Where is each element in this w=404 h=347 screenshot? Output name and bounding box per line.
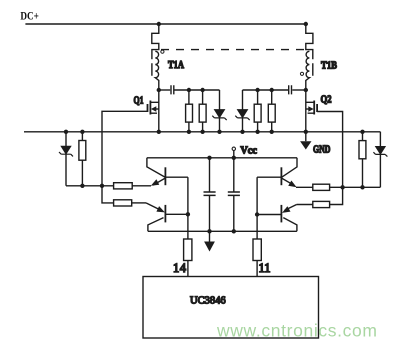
node rail left resistor [80, 130, 84, 134]
wire left bases vertical [187, 177, 189, 239]
transformer T1B secondary-half winding [306, 51, 310, 90]
wire cap to Q2 drain node [292, 89, 306, 91]
resistor R snubber 1 [188, 90, 190, 132]
wire mid bottom rail [148, 230, 297, 232]
node rail snubber D2 [240, 130, 244, 134]
resistor R pin11 [253, 239, 261, 261]
wire Q2 gate lead [317, 112, 343, 205]
zener diode D3 (left rail clamp) [65, 132, 67, 186]
wire snubber row left [175, 89, 220, 91]
capacitor C2 (right snubber) [289, 85, 292, 94]
winding phase dot T1B [300, 72, 303, 75]
node left wire gate join [100, 184, 104, 188]
node left wire resistor join [80, 184, 84, 188]
svg-text:GND: GND [313, 145, 331, 156]
capacitor C1 (left snubber) [171, 85, 174, 94]
svg-text:www.cntronics.com: www.cntronics.com [216, 321, 377, 341]
transformer T1A primary winding [155, 51, 159, 90]
node rail snubber R1 [187, 130, 191, 134]
svg-text:UC3846: UC3846 [190, 296, 226, 307]
resistor R gate-pulldown left [81, 132, 83, 186]
node right wire resistor join [360, 185, 364, 189]
wire right bases vertical [256, 177, 258, 239]
transistor V2 lower-left PNP [146, 203, 160, 210]
resistor R gate drive lower-right [313, 201, 330, 207]
svg-text:DC+: DC+ [20, 11, 39, 23]
resistor R snubber 3 [257, 90, 259, 132]
node lower-left base junction [186, 212, 190, 216]
zener diode D4 (right rail clamp) [379, 132, 381, 188]
node lower-right base junction [255, 212, 259, 216]
node rail snubber R3 [255, 130, 259, 134]
wire pin 11 [256, 261, 258, 277]
node cap1 rail join [207, 156, 211, 160]
op-amp U1 UC3846 box [143, 277, 319, 339]
node R-snubber tap 2 [200, 88, 204, 92]
node Q2 drain junction [304, 88, 308, 92]
wire left gate network [66, 185, 114, 187]
wire upper-right base [257, 176, 281, 178]
resistor R snubber 4 [271, 90, 273, 132]
resistor R snubber 2 [202, 90, 204, 132]
resistor R gate drive upper-right [313, 184, 330, 190]
svg-text:Q1: Q1 [134, 96, 144, 107]
wire vcc drop [233, 151, 235, 158]
node rail Q2 source / GND [304, 130, 308, 134]
mosfet Q2 [305, 90, 307, 132]
mosfet Q1 [158, 90, 160, 132]
wire Q1 drain to snubber cap [159, 89, 170, 91]
ground symbol mid [209, 231, 211, 241]
wire upper-right emitter [296, 186, 313, 188]
node right wire gate join [340, 185, 344, 189]
wire main ground rail [24, 131, 380, 133]
wire Q1 gate lead [102, 111, 148, 203]
resistor R gate drive lower-left [114, 200, 132, 206]
zener diode D1 (left snubber) [219, 90, 221, 132]
svg-text:T1B: T1B [321, 61, 337, 72]
node rail right resistor [360, 130, 364, 134]
svg-text:14: 14 [173, 261, 187, 275]
wire lower-right base [257, 214, 281, 216]
wire upper-left emitter [132, 185, 151, 187]
node R-snubber tap 4 [270, 88, 274, 92]
resistor R pin14 [184, 239, 192, 261]
wire mid vcc rail [147, 157, 297, 159]
wire pin 14 [187, 261, 189, 277]
node vcc rail join [232, 156, 236, 160]
winding phase dot T1A [161, 50, 164, 53]
resistor R right rail [362, 132, 364, 188]
svg-text:T1A: T1A [168, 60, 184, 71]
node rail snubber D1 [217, 130, 221, 134]
node rail snubber R4 [270, 130, 274, 134]
wire right gate network [330, 186, 381, 188]
node rail snubber R2 [200, 130, 204, 134]
wire upper-left base [165, 176, 188, 178]
wire snubber row right [243, 89, 289, 91]
svg-text:Q2: Q2 [321, 95, 332, 106]
capacitor C3 (vcc bypass left) [209, 158, 211, 232]
transistor V3 upper-right NPN [281, 158, 297, 178]
node T1A top junction [157, 22, 161, 26]
ground symbol at Q2 source [305, 132, 307, 141]
node R-snubber tap 1 [187, 88, 191, 92]
wire lower-right emitter lead [297, 204, 313, 206]
zener diode D2 (right snubber) [242, 90, 244, 132]
wire T1B top jog [306, 24, 313, 76]
wire lower-left emitter lead [132, 202, 146, 204]
resistor R gate drive upper-left [114, 183, 133, 189]
svg-text:11: 11 [259, 261, 271, 275]
capacitor C4 (vcc bypass right) [233, 158, 235, 232]
svg-text:Vcc: Vcc [240, 146, 257, 157]
vcc terminal circle [232, 147, 235, 150]
wire lower-left base [165, 213, 188, 215]
node mid rail cap1 [207, 229, 211, 233]
node T1B top junction [304, 22, 308, 26]
coupling dashed line between T1A and T1B [161, 49, 308, 51]
transistor V4 lower-right PNP [285, 205, 297, 211]
node mid rail cap2 [232, 229, 236, 233]
wire T1A top jog [152, 24, 159, 76]
transistor V1 upper-left NPN [147, 158, 166, 178]
node Q1 drain junction [157, 88, 161, 92]
wire top DC+ rail [25, 23, 307, 25]
node rail Q1 source [157, 130, 161, 134]
node rail left zener [64, 130, 68, 134]
node R-snubber tap 3 [255, 88, 259, 92]
